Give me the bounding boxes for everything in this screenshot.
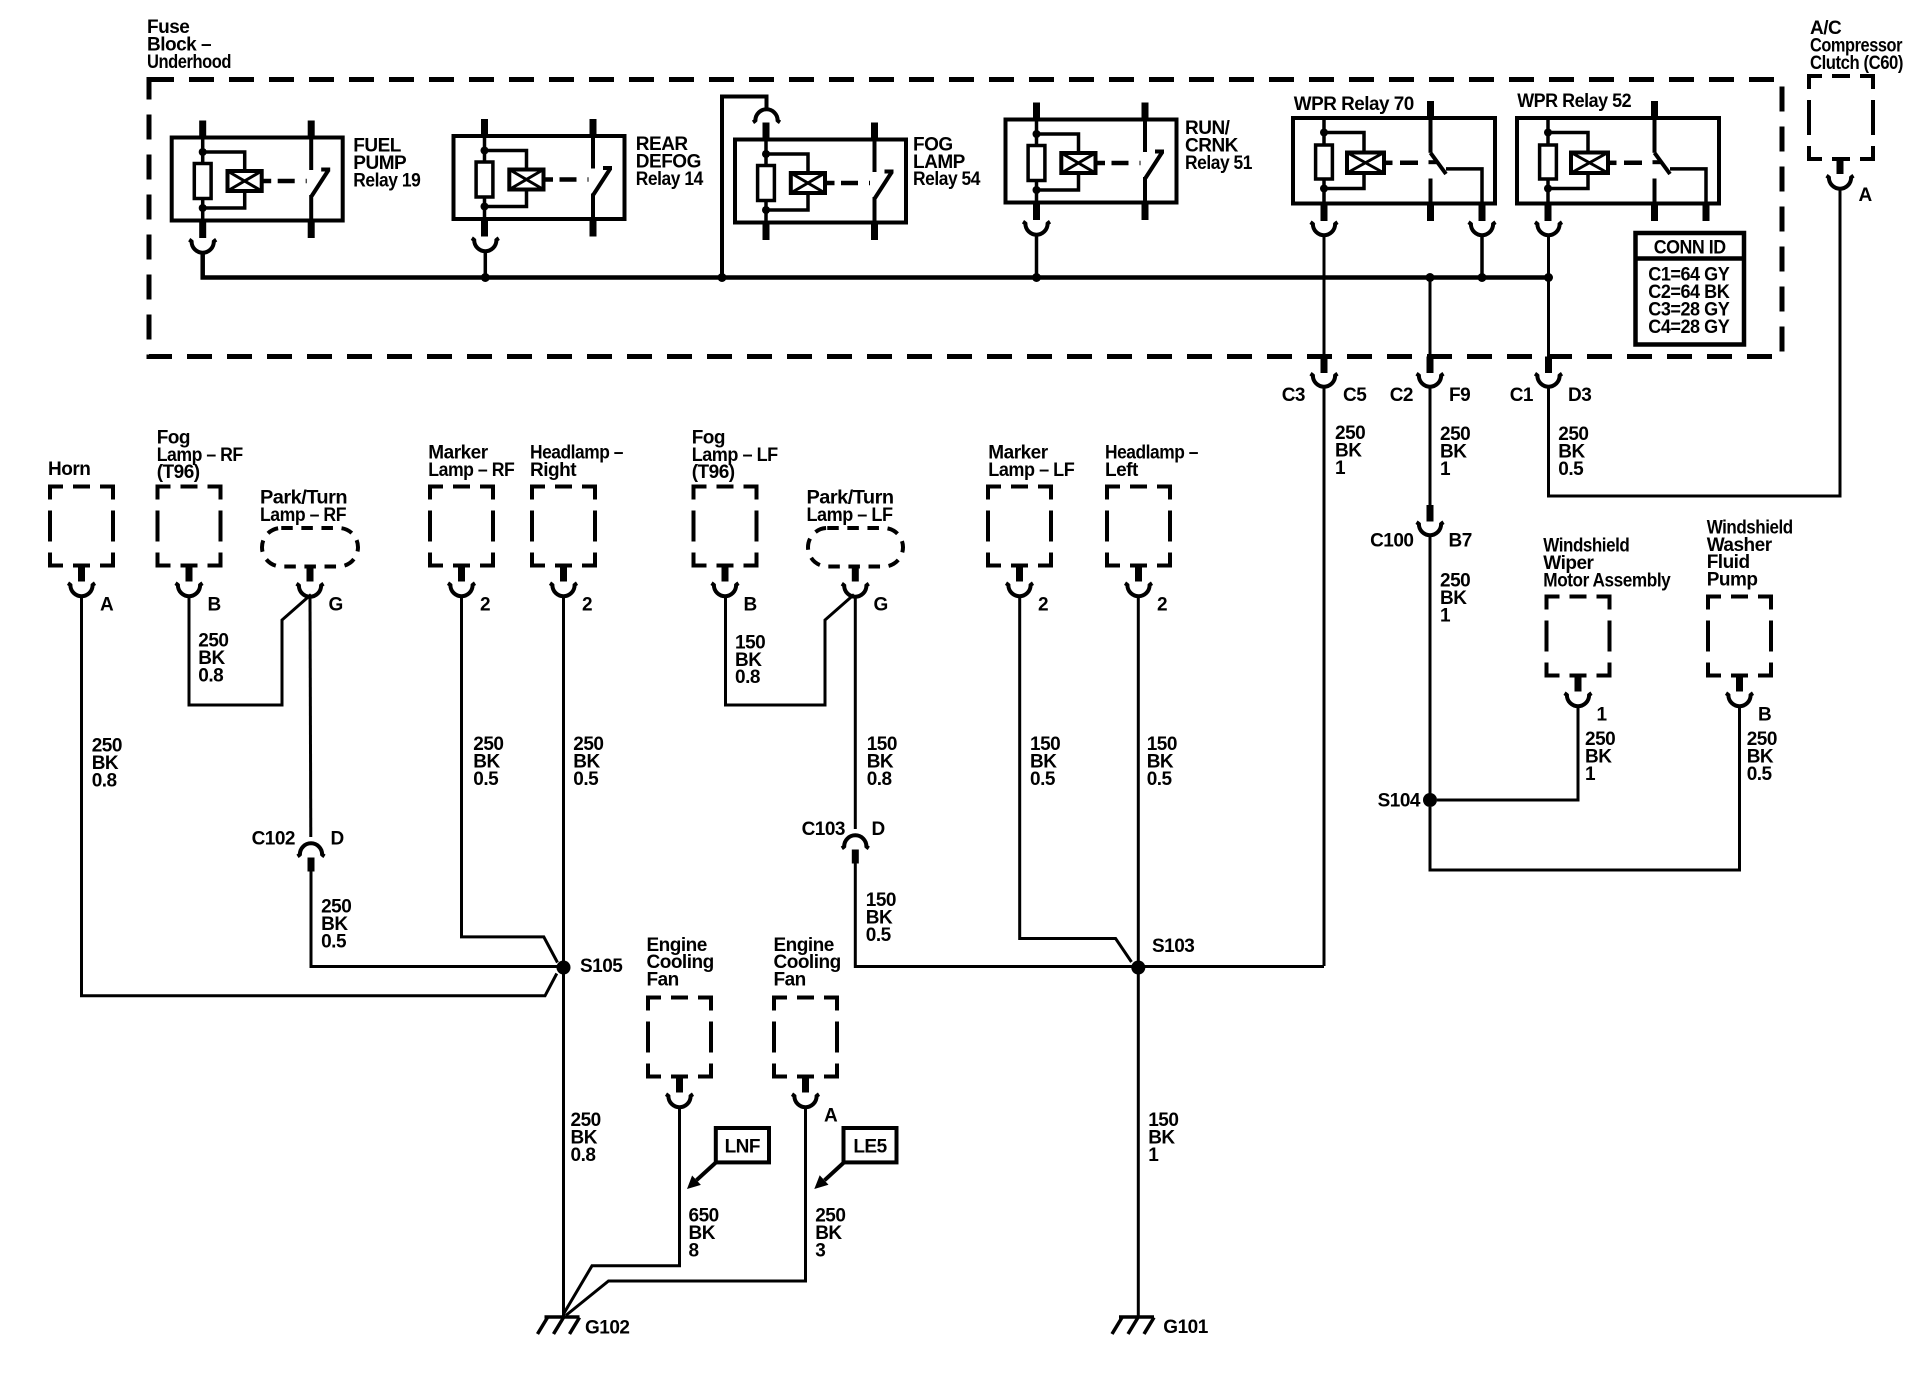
svg-text:WPR Relay 52: WPR Relay 52 [1517, 91, 1631, 112]
svg-text:Pump: Pump [1707, 570, 1758, 591]
svg-text:A: A [1859, 185, 1873, 206]
svg-text:0.5: 0.5 [1747, 764, 1773, 785]
svg-text:1: 1 [1440, 459, 1451, 480]
svg-text:Fan: Fan [647, 970, 679, 991]
svg-text:F9: F9 [1449, 385, 1470, 406]
svg-text:Left: Left [1105, 460, 1139, 481]
svg-text:0.8: 0.8 [571, 1145, 596, 1166]
svg-text:B: B [1758, 704, 1771, 725]
svg-text:1: 1 [1597, 704, 1608, 725]
svg-text:0.5: 0.5 [573, 769, 599, 790]
svg-text:B7: B7 [1449, 531, 1472, 552]
svg-text:1: 1 [1440, 606, 1451, 627]
svg-text:B: B [744, 594, 757, 615]
svg-text:Lamp – LF: Lamp – LF [807, 505, 893, 526]
svg-text:C100: C100 [1370, 531, 1413, 552]
svg-text:G101: G101 [1163, 1317, 1208, 1338]
svg-text:Underhood: Underhood [147, 52, 231, 73]
svg-text:2: 2 [582, 594, 592, 615]
svg-text:S105: S105 [580, 956, 623, 977]
svg-text:0.8: 0.8 [92, 771, 117, 792]
svg-text:Motor Assembly: Motor Assembly [1543, 571, 1671, 592]
svg-text:0.8: 0.8 [867, 769, 892, 790]
svg-text:C102: C102 [252, 828, 295, 849]
svg-text:LNF: LNF [725, 1137, 760, 1158]
svg-text:C3: C3 [1282, 385, 1305, 406]
svg-text:C4=28 GY: C4=28 GY [1648, 317, 1730, 338]
svg-text:S104: S104 [1378, 791, 1421, 812]
svg-text:1: 1 [1335, 458, 1346, 479]
svg-text:Fan: Fan [774, 970, 806, 991]
svg-text:Horn: Horn [48, 459, 90, 480]
svg-text:3: 3 [815, 1240, 825, 1261]
svg-text:A: A [824, 1105, 838, 1126]
svg-text:Right: Right [530, 460, 577, 481]
svg-text:0.5: 0.5 [1147, 769, 1173, 790]
svg-text:0.5: 0.5 [1030, 769, 1056, 790]
svg-text:S103: S103 [1152, 936, 1194, 957]
svg-text:Relay 14: Relay 14 [636, 169, 704, 190]
svg-text:D: D [872, 819, 885, 840]
svg-text:C5: C5 [1343, 385, 1367, 406]
svg-text:LE5: LE5 [853, 1137, 887, 1158]
svg-text:Relay 54: Relay 54 [913, 169, 981, 190]
svg-text:C2: C2 [1390, 385, 1413, 406]
svg-text:D3: D3 [1568, 385, 1591, 406]
svg-text:G: G [329, 594, 343, 615]
svg-text:C1: C1 [1510, 385, 1534, 406]
svg-text:Clutch (C60): Clutch (C60) [1810, 53, 1903, 74]
svg-text:(T96): (T96) [157, 462, 200, 483]
svg-text:0.5: 0.5 [321, 931, 347, 952]
svg-text:0.8: 0.8 [735, 667, 760, 688]
svg-text:0.5: 0.5 [1558, 459, 1584, 480]
svg-text:0.5: 0.5 [866, 925, 892, 946]
svg-text:G: G [874, 594, 888, 615]
svg-text:2: 2 [1157, 594, 1167, 615]
svg-text:D: D [331, 828, 344, 849]
svg-text:0.8: 0.8 [198, 666, 223, 687]
svg-text:C103: C103 [802, 819, 845, 840]
svg-text:2: 2 [1038, 594, 1048, 615]
svg-text:0.5: 0.5 [473, 769, 499, 790]
svg-text:A: A [100, 594, 114, 615]
svg-text:8: 8 [689, 1240, 699, 1261]
svg-text:(T96): (T96) [692, 462, 735, 483]
svg-text:1: 1 [1148, 1145, 1159, 1166]
svg-text:CONN ID: CONN ID [1654, 237, 1726, 258]
svg-text:Lamp – RF: Lamp – RF [260, 505, 346, 526]
svg-text:WPR Relay 70: WPR Relay 70 [1294, 94, 1414, 115]
svg-text:2: 2 [480, 594, 490, 615]
svg-text:Lamp – LF: Lamp – LF [988, 460, 1074, 481]
svg-text:Relay 51: Relay 51 [1185, 153, 1253, 174]
svg-text:B: B [208, 594, 221, 615]
svg-text:G102: G102 [585, 1317, 629, 1338]
svg-text:Lamp – RF: Lamp – RF [428, 460, 514, 481]
svg-text:Relay 19: Relay 19 [353, 171, 420, 192]
svg-text:1: 1 [1585, 764, 1596, 785]
